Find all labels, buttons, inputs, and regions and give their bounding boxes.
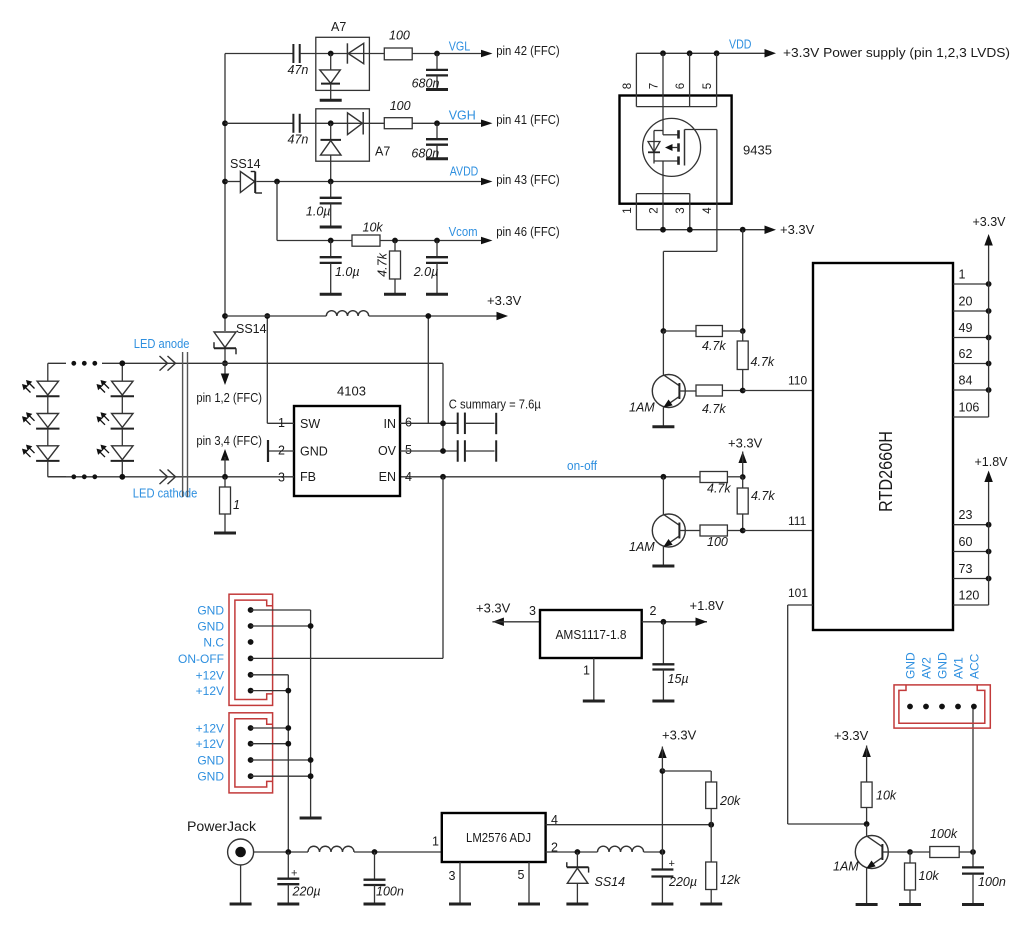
svg-text:120: 120	[959, 589, 980, 603]
svg-text:GND: GND	[197, 620, 224, 634]
svg-text:GND: GND	[936, 652, 950, 679]
svg-text:4.7k: 4.7k	[751, 489, 775, 503]
svg-text:LM2576 ADJ: LM2576 ADJ	[466, 830, 531, 845]
svg-text:+3.3V: +3.3V	[780, 222, 815, 237]
svg-text:SS14: SS14	[595, 875, 626, 889]
svg-text:4: 4	[702, 207, 714, 214]
svg-text:12k: 12k	[720, 873, 741, 887]
svg-text:3: 3	[529, 604, 536, 618]
svg-text:220µ: 220µ	[292, 885, 321, 899]
svg-text:1: 1	[432, 835, 439, 849]
svg-text:+1.8V: +1.8V	[690, 598, 725, 613]
svg-text:GND: GND	[197, 754, 224, 768]
svg-text:+12V: +12V	[196, 722, 224, 736]
svg-text:GND: GND	[904, 652, 918, 679]
svg-text:+12V: +12V	[196, 668, 224, 682]
svg-text:680n: 680n	[411, 146, 439, 160]
svg-text:pin 46 (FFC): pin 46 (FFC)	[496, 224, 560, 239]
svg-text:+: +	[291, 868, 297, 880]
svg-text:+3.3V: +3.3V	[834, 728, 869, 743]
svg-text:+3.3V: +3.3V	[662, 728, 697, 743]
svg-text:+3.3V: +3.3V	[476, 601, 511, 616]
svg-text:1: 1	[622, 207, 634, 213]
svg-text:+3.3V: +3.3V	[728, 436, 763, 451]
svg-text:20k: 20k	[719, 794, 741, 808]
svg-text:5: 5	[405, 443, 412, 457]
svg-text:AV2: AV2	[920, 657, 934, 679]
svg-text:73: 73	[959, 562, 973, 576]
svg-text:1AM: 1AM	[833, 860, 859, 874]
svg-text:6: 6	[675, 83, 687, 89]
svg-text:1.0µ: 1.0µ	[306, 205, 331, 219]
svg-text:47n: 47n	[288, 133, 309, 147]
svg-text:10k: 10k	[919, 869, 940, 883]
svg-text:47n: 47n	[288, 63, 309, 77]
svg-text:9435: 9435	[743, 143, 772, 158]
svg-text:ON-OFF: ON-OFF	[178, 652, 224, 666]
svg-text:SW: SW	[300, 417, 320, 431]
svg-text:7: 7	[649, 83, 661, 89]
svg-text:+12V: +12V	[196, 737, 224, 751]
svg-text:+3.3V: +3.3V	[973, 215, 1007, 229]
svg-text:+3.3V: +3.3V	[487, 293, 522, 308]
svg-text:GND: GND	[197, 604, 224, 618]
svg-text:IN: IN	[384, 417, 397, 431]
svg-text:+1.8V: +1.8V	[975, 455, 1009, 469]
svg-text:1AM: 1AM	[629, 540, 655, 554]
svg-text:GND: GND	[197, 770, 224, 784]
svg-text:106: 106	[959, 401, 980, 415]
svg-text:A7: A7	[331, 20, 346, 34]
svg-text:+: +	[669, 858, 675, 870]
svg-text:PowerJack: PowerJack	[187, 819, 256, 834]
svg-text:2.0µ: 2.0µ	[413, 265, 439, 279]
svg-text:pin 3,4 (FFC): pin 3,4 (FFC)	[196, 434, 262, 448]
svg-text:220µ: 220µ	[668, 875, 697, 889]
svg-text:4.7k: 4.7k	[376, 252, 390, 276]
svg-text:SS14: SS14	[236, 322, 267, 336]
svg-text:62: 62	[959, 347, 973, 361]
svg-text:GND: GND	[300, 444, 328, 458]
svg-text:AMS1117-1.8: AMS1117-1.8	[556, 627, 627, 642]
svg-text:23: 23	[959, 508, 973, 522]
svg-text:8: 8	[622, 83, 634, 89]
svg-text:on-off: on-off	[567, 459, 597, 473]
svg-text:1: 1	[278, 416, 285, 430]
svg-text:4: 4	[405, 470, 412, 484]
svg-text:SS14: SS14	[230, 157, 261, 171]
svg-text:LED anode: LED anode	[134, 337, 190, 351]
svg-text:N.C: N.C	[203, 636, 224, 650]
svg-text:VGH: VGH	[449, 107, 476, 122]
svg-text:pin 43 (FFC): pin 43 (FFC)	[496, 172, 560, 187]
svg-text:AVDD: AVDD	[450, 163, 479, 178]
svg-text:10k: 10k	[876, 789, 897, 803]
svg-text:pin 41 (FFC): pin 41 (FFC)	[496, 112, 560, 127]
svg-text:ACC: ACC	[967, 653, 981, 679]
svg-text:4103: 4103	[337, 383, 366, 398]
svg-text:VDD: VDD	[729, 37, 752, 52]
svg-text:OV: OV	[378, 444, 397, 458]
svg-text:4.7k: 4.7k	[702, 402, 726, 416]
svg-text:15µ: 15µ	[668, 672, 689, 686]
svg-text:3: 3	[449, 869, 456, 883]
svg-text:C summary = 7.6µ: C summary = 7.6µ	[449, 398, 541, 412]
svg-text:60: 60	[959, 535, 973, 549]
svg-text:2: 2	[649, 207, 661, 213]
svg-text:5: 5	[518, 868, 525, 882]
svg-text:EN: EN	[379, 470, 396, 484]
svg-text:680n: 680n	[412, 77, 440, 91]
svg-text:1AM: 1AM	[629, 401, 655, 415]
svg-text:AV1: AV1	[952, 657, 966, 679]
svg-text:100n: 100n	[978, 875, 1006, 889]
svg-text:3: 3	[675, 207, 687, 213]
svg-text:+12V: +12V	[196, 684, 224, 698]
svg-text:A7: A7	[375, 145, 390, 159]
svg-text:4.7k: 4.7k	[707, 482, 731, 496]
svg-text:100n: 100n	[376, 885, 404, 899]
svg-text:84: 84	[959, 374, 973, 388]
svg-text:pin 1,2 (FFC): pin 1,2 (FFC)	[196, 391, 262, 405]
svg-text:4.7k: 4.7k	[702, 339, 726, 353]
svg-text:100: 100	[390, 99, 411, 113]
svg-text:FB: FB	[300, 470, 316, 484]
svg-text:101: 101	[788, 586, 808, 600]
svg-text:1: 1	[233, 498, 240, 512]
svg-text:2: 2	[278, 444, 285, 458]
svg-text:100: 100	[707, 535, 728, 549]
svg-text:VGL: VGL	[449, 39, 471, 54]
svg-text:1: 1	[959, 268, 966, 282]
svg-text:100k: 100k	[930, 827, 958, 841]
svg-text:pin 42 (FFC): pin 42 (FFC)	[496, 43, 560, 58]
svg-text:2: 2	[650, 604, 657, 618]
svg-text:3: 3	[278, 471, 285, 485]
svg-text:Vcom: Vcom	[449, 224, 478, 239]
svg-text:49: 49	[959, 321, 973, 335]
svg-text:110: 110	[788, 374, 807, 388]
svg-text:111: 111	[788, 514, 807, 528]
svg-text:5: 5	[702, 83, 714, 89]
svg-text:20: 20	[959, 295, 973, 309]
svg-text:100: 100	[389, 29, 410, 43]
svg-text:+3.3V Power supply (pin 1,2,3: +3.3V Power supply (pin 1,2,3 LVDS)	[783, 45, 1010, 60]
svg-text:1.0µ: 1.0µ	[335, 265, 360, 279]
svg-text:4.7k: 4.7k	[751, 355, 775, 369]
svg-text:1: 1	[583, 664, 590, 678]
svg-text:RTD2660H: RTD2660H	[876, 431, 896, 512]
svg-text:10k: 10k	[363, 220, 384, 234]
